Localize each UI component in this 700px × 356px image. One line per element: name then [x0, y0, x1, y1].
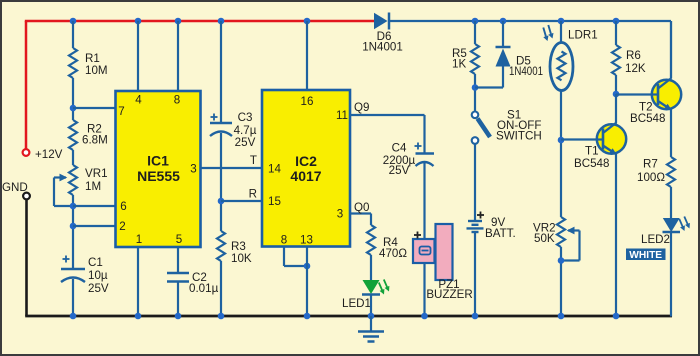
- resistor R6: [612, 45, 646, 75]
- switch S1: [472, 109, 542, 144]
- svg-text:3: 3: [190, 163, 196, 176]
- svg-text:BC548: BC548: [574, 157, 609, 170]
- svg-text:4: 4: [135, 94, 142, 107]
- wire: R5 bottom to node: [474, 74, 476, 112]
- svg-text:SWITCH: SWITCH: [496, 130, 542, 143]
- wire: battery to ground bus: [474, 232, 476, 316]
- svg-text:BATT.: BATT.: [485, 227, 516, 240]
- svg-text:C3: C3: [238, 111, 253, 124]
- svg-text:6.8M: 6.8M: [82, 134, 108, 147]
- svg-text:BUZZER: BUZZER: [426, 288, 472, 301]
- wire: rail to R6: [615, 21, 617, 45]
- node: VR2 wiper join: [558, 257, 565, 264]
- svg-text:10µ: 10µ: [88, 269, 108, 282]
- resistor R7: [637, 157, 675, 187]
- svg-text:1N4001: 1N4001: [362, 41, 403, 54]
- LED LED1: [342, 280, 389, 311]
- node: battery / ground bus: [472, 313, 479, 320]
- node: rail / R6: [613, 18, 620, 25]
- svg-text:1: 1: [136, 233, 142, 246]
- svg-text:1K: 1K: [452, 58, 466, 71]
- wire: R2 to VR1: [72, 150, 74, 165]
- svg-text:10M: 10M: [85, 64, 108, 77]
- wire: to IC1 pin 2: [73, 225, 116, 227]
- wire: rail to C3: [220, 21, 222, 123]
- op IC2 4017: [262, 90, 350, 247]
- node: pin13 / ground bus: [304, 313, 311, 320]
- svg-text:8: 8: [281, 234, 287, 247]
- node: T1 emitter / ground bus: [613, 313, 620, 320]
- svg-text:R: R: [249, 188, 257, 201]
- ground symbol: [358, 316, 384, 342]
- node: rail / R5: [472, 18, 479, 25]
- transistor T1: [574, 123, 626, 171]
- svg-text:BC548: BC548: [630, 112, 665, 125]
- wire: rail to LDR1: [560, 21, 562, 44]
- node: pin8/pin13 join: [304, 263, 311, 270]
- svg-text:NE555: NE555: [137, 168, 180, 184]
- svg-text:T: T: [250, 154, 257, 167]
- wire: IC1 pin 5 to C2: [177, 247, 179, 273]
- transistor T2: [630, 78, 681, 125]
- svg-text:IC2: IC2: [295, 153, 317, 169]
- wire: node to T1 base: [561, 138, 602, 140]
- wire: LED1 to ground bus: [370, 295, 372, 317]
- node: buzzer / ground bus: [421, 313, 428, 320]
- diode D5: [496, 47, 544, 78]
- svg-text:R6: R6: [626, 49, 641, 62]
- node: C1 to ground bus: [70, 313, 77, 320]
- node: R6 / T1 collector / T2 base: [613, 91, 620, 98]
- wire: pin 8 stub: [177, 21, 179, 91]
- svg-text:100Ω: 100Ω: [637, 171, 665, 184]
- svg-text:1M: 1M: [85, 180, 101, 193]
- node: pin1 / ground bus: [135, 313, 142, 320]
- capacitor C4: [383, 142, 434, 178]
- svg-text:LED2: LED2: [641, 233, 670, 246]
- capacitor C3: [210, 111, 257, 149]
- node: R1/R2/pin7: [70, 105, 77, 112]
- svg-text:11: 11: [336, 109, 348, 122]
- svg-text:+12V: +12V: [35, 148, 63, 161]
- wire: node R to IC2 pin 15: [221, 188, 262, 202]
- svg-text:2: 2: [119, 220, 125, 233]
- resistor R3: [217, 231, 252, 265]
- wire: T2 emitter to R7: [670, 110, 672, 158]
- svg-text:13: 13: [300, 234, 313, 247]
- svg-text:25V: 25V: [389, 164, 410, 177]
- resistor R2: [69, 120, 108, 150]
- node: LDR / VR2 / T1 base: [558, 137, 565, 144]
- wire: C3 bottom through pin3 crossing to node R: [220, 133, 222, 231]
- wire: rail to R5: [474, 21, 476, 44]
- wire: R4 to LED1: [370, 255, 372, 281]
- node: VR1 wiper / pin 6: [70, 203, 77, 210]
- wire: pin 4 stub: [137, 21, 139, 91]
- svg-text:470Ω: 470Ω: [379, 247, 407, 260]
- wire: blue top rail from D6 cathode to right corner: [389, 21, 671, 78]
- svg-text:C1: C1: [88, 256, 103, 269]
- node: rail / D5: [500, 18, 507, 25]
- svg-text:Q0: Q0: [354, 201, 369, 214]
- svg-text:T1: T1: [585, 145, 599, 158]
- svg-text:25V: 25V: [235, 136, 256, 149]
- node: rail / IC1 pin8: [175, 18, 182, 25]
- wire: IC2 pin 11 (Q9) to C4 column: [350, 101, 425, 154]
- battery 9V BATT: [467, 212, 516, 241]
- wire: node down to T1 collector: [615, 94, 617, 123]
- svg-text:0.01µ: 0.01µ: [189, 282, 219, 295]
- wire: IC1 pin 3 to IC2 pin 14: [201, 154, 263, 168]
- svg-text:Q9: Q9: [354, 101, 369, 114]
- LDR LDR1: [543, 25, 597, 91]
- svg-text:1N4001: 1N4001: [509, 65, 543, 78]
- wire: rail to D5 cathode: [502, 21, 504, 47]
- wire: red positive top rail to D6 anode: [25, 20, 374, 23]
- capacitor C1: [61, 256, 109, 296]
- wire: R7 to LED2: [670, 187, 672, 219]
- svg-text:3: 3: [337, 208, 343, 221]
- potentiometer VR1: [54, 165, 108, 206]
- buzzer PZ1: [413, 224, 473, 301]
- node: R3 / ground bus: [218, 313, 225, 320]
- resistor R1: [69, 48, 108, 78]
- terminal +12V: [23, 148, 63, 161]
- wire: C1 bottom: [72, 279, 74, 316]
- label: WHITE badge: [626, 249, 666, 262]
- node: LED1 / ground bus: [368, 313, 375, 320]
- wire: VR1 bottom: [72, 195, 74, 269]
- svg-text:25V: 25V: [88, 282, 109, 295]
- node: rail / C3: [218, 18, 225, 25]
- svg-text:IC1: IC1: [147, 153, 169, 169]
- op IC1 NE555: [116, 91, 201, 247]
- svg-text:5: 5: [176, 233, 182, 246]
- wire: switch to battery: [474, 144, 476, 221]
- node: top rail / R1: [70, 18, 77, 25]
- wire: R3 bottom: [220, 261, 222, 316]
- wire: VR2 bottom to ground bus: [560, 247, 562, 316]
- node: R5 / D5: [472, 84, 479, 91]
- node: rail / LDR1: [558, 18, 565, 25]
- node: rail / IC2 pin16: [304, 18, 311, 25]
- svg-text:50K: 50K: [534, 232, 555, 245]
- wire: GND black vertical: [25, 200, 28, 317]
- node: VR2 / ground bus: [558, 313, 565, 320]
- wire: R1 top: [72, 21, 74, 48]
- resistor R5: [452, 44, 479, 74]
- wire: to IC1 pin 6: [73, 205, 116, 207]
- wire: node to T2 base: [616, 93, 657, 95]
- node: C2 / ground bus: [175, 313, 182, 320]
- svg-text:14: 14: [268, 163, 281, 176]
- svg-text:6: 6: [120, 200, 126, 213]
- node: pin 2: [70, 223, 77, 230]
- wire: +12V red vertical riser: [25, 21, 28, 149]
- wire: C2 bottom: [177, 282, 179, 317]
- svg-text:12K: 12K: [625, 62, 646, 75]
- svg-text:15: 15: [268, 195, 281, 208]
- svg-text:WHITE: WHITE: [629, 250, 662, 261]
- node: rail / IC1 pin4: [135, 18, 142, 25]
- svg-text:7: 7: [118, 105, 124, 118]
- wire: to IC1 pin 7: [73, 107, 116, 109]
- node: R junction (pin15): [218, 198, 225, 205]
- wire: C4 to buzzer: [423, 163, 425, 239]
- resistor R4: [367, 225, 407, 260]
- wire: LED2 to ground bus: [670, 232, 672, 317]
- wire: R1 bottom to node: [72, 78, 74, 120]
- wire: buzzer to ground bus: [423, 263, 425, 316]
- wire: ground bottom bus (black): [25, 315, 672, 318]
- wire: IC2 pin 8 jog to pin 13: [284, 247, 307, 267]
- LED LED2: [641, 217, 690, 247]
- wire: D5 anode to R5 node: [475, 67, 503, 88]
- svg-text:R7: R7: [643, 158, 658, 171]
- diode D6: [362, 13, 403, 54]
- svg-text:GND: GND: [2, 181, 28, 194]
- wire: IC1 pin 1 to ground bus: [137, 247, 139, 316]
- svg-text:8: 8: [174, 94, 180, 107]
- potentiometer VR2: [533, 217, 580, 261]
- svg-text:LDR1: LDR1: [568, 29, 598, 42]
- wire: IC2 pin 3 (Q0) to R4: [350, 201, 371, 225]
- wire: LDR1 to T1 base node: [560, 91, 562, 218]
- wire: R6 bottom to node: [615, 75, 617, 94]
- svg-text:LED1: LED1: [342, 297, 371, 310]
- svg-text:16: 16: [301, 95, 314, 108]
- svg-text:4017: 4017: [290, 168, 321, 184]
- svg-text:VR1: VR1: [85, 167, 108, 180]
- capacitor C2: [167, 271, 219, 295]
- wire: T1 emitter to ground bus: [615, 154, 617, 316]
- terminal GND: [2, 181, 30, 199]
- wire: pin 16 stub: [306, 21, 308, 90]
- svg-text:10K: 10K: [231, 252, 252, 265]
- svg-text:C4: C4: [392, 142, 407, 155]
- wire: IC2 pin 13 to ground bus: [306, 247, 308, 317]
